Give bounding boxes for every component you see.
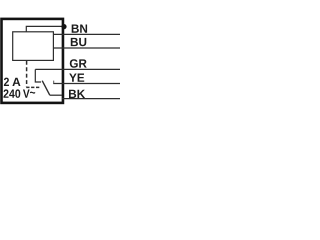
contact tick [53, 81, 55, 84]
switch blade S1 [42, 81, 50, 96]
value ~ of V~ [30, 92, 35, 94]
junction dot [61, 24, 66, 29]
inner relay box U1 [13, 32, 54, 61]
switch frame [35, 69, 41, 82]
wire BU [53, 47, 120, 49]
wire GR [35, 68, 120, 70]
label BU [71, 38, 86, 46]
linkage dashed horizontal [26, 86, 41, 88]
label GR [70, 59, 87, 68]
value V of V~ [23, 90, 30, 98]
value 240 [3, 89, 20, 98]
switch output wire [50, 94, 62, 96]
wire YE with fixed contact [53, 83, 120, 85]
label YE [69, 74, 84, 82]
wire BK [62, 98, 120, 100]
wire BN [53, 33, 120, 35]
outer appliance box [2, 19, 63, 103]
value A of 2 A [12, 78, 20, 86]
value 2 of 2 A [4, 78, 9, 86]
label BN [72, 24, 87, 32]
wire from inner box top to junction dot [26, 26, 62, 31]
linkage dashed vertical [26, 61, 28, 87]
label BK [69, 90, 85, 98]
